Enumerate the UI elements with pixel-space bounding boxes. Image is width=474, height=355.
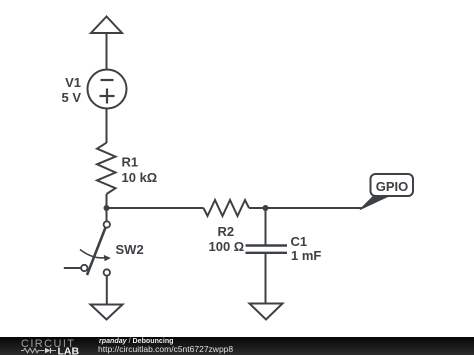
wire R2 to junction [249, 207, 266, 209]
svg-text:V1: V1 [65, 75, 81, 90]
wire SW2 to ground [106, 276, 108, 305]
svg-text:LAB: LAB [58, 346, 80, 355]
CircuitLab logo LAB [58, 346, 80, 355]
switch SW2 [64, 221, 111, 275]
footer bar [0, 337, 474, 355]
wire node to SW2 [106, 208, 108, 221]
wire R1 to node [106, 194, 108, 208]
voltage source V1 [88, 70, 127, 109]
node junction dot at R2/C1/GPIO [263, 205, 269, 211]
SW2 actuation arrow [80, 250, 106, 258]
ground under SW2 [91, 305, 123, 320]
label C1 1 mF [291, 234, 322, 263]
svg-text:http://circuitlab.com/c5nt6727: http://circuitlab.com/c5nt6727zwpp8 [98, 344, 233, 354]
CircuitLab logo CIRCUIT [21, 338, 75, 350]
svg-text:R2: R2 [218, 224, 235, 239]
wire V1 to R1 [106, 109, 108, 144]
CircuitLab logo diode [45, 348, 56, 353]
svg-text:GPIO: GPIO [376, 179, 409, 194]
svg-text:1 mF: 1 mF [291, 248, 321, 263]
footer url line [98, 344, 233, 354]
label SW2 [116, 242, 144, 257]
footer credit line [99, 337, 174, 345]
resistor R1 [97, 143, 116, 194]
svg-text:100 Ω: 100 Ω [209, 239, 245, 254]
svg-text:10 kΩ: 10 kΩ [122, 170, 158, 185]
wire C1 to ground [265, 253, 267, 304]
wire junction to GPIO flag [266, 207, 363, 209]
power flag VCC [91, 17, 122, 34]
SW2 common stub wire [64, 267, 81, 269]
wire VCC to V1 [106, 33, 108, 70]
SW2 common terminal [81, 265, 87, 271]
wire node to R2 [107, 207, 204, 209]
resistor R2 [204, 200, 250, 216]
svg-text:SW2: SW2 [116, 242, 144, 257]
label R2 100 Ohm [209, 224, 245, 254]
svg-text:5 V: 5 V [61, 90, 81, 105]
ground under C1 [250, 304, 283, 320]
SW2 lever [87, 228, 106, 276]
node junction dot at R1/SW2/R2 [104, 205, 110, 211]
GPIO flag [360, 174, 413, 210]
label V1 5 V [61, 75, 81, 105]
SW2 bottom terminal [104, 269, 110, 275]
svg-text:C1: C1 [291, 234, 308, 249]
capacitor C1 [246, 246, 288, 253]
wire junction to C1 [265, 208, 267, 245]
SW2 top terminal [104, 221, 110, 227]
svg-text:R1: R1 [122, 155, 139, 170]
CircuitLab logo resistor zigzag [21, 348, 45, 352]
label R1 10 kOhm [122, 155, 158, 186]
